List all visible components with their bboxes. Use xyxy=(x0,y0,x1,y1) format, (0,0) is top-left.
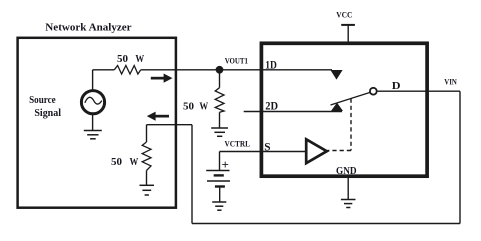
ground below R3 xyxy=(140,185,155,195)
svg-text:Source: Source xyxy=(29,94,56,106)
wire D output to VIN xyxy=(377,90,460,92)
svg-text:VOUT1: VOUT1 xyxy=(225,55,248,65)
wire S pin line xyxy=(220,151,307,153)
svg-text:Network Analyzer: Network Analyzer xyxy=(45,22,132,33)
wire GND pin to ground xyxy=(347,177,349,200)
dashed control line vertical xyxy=(350,99,352,151)
power rail VCC symbol xyxy=(341,25,355,44)
wire bottom return xyxy=(192,223,460,225)
svg-text:S: S xyxy=(264,141,270,153)
arrow forward direction xyxy=(151,74,173,83)
svg-text:VIN: VIN xyxy=(444,77,457,87)
source V1 AC source circle xyxy=(81,91,104,114)
wire source to R1 xyxy=(93,69,115,71)
svg-text:D: D xyxy=(392,81,401,92)
wire R3 top lead xyxy=(146,125,148,142)
driver buffer U1 xyxy=(306,139,327,163)
box switch IC package xyxy=(261,43,427,176)
box Network Analyzer enclosure xyxy=(18,38,176,208)
wire source bottom lead xyxy=(92,114,94,131)
wire 2D pin line inside box xyxy=(263,111,342,113)
resistor R2 50W vertical xyxy=(215,88,224,113)
svg-text:Signal: Signal xyxy=(34,107,61,119)
wire reverse path horizontal xyxy=(147,124,193,126)
wire VOUT1 to 1D pin xyxy=(220,69,333,71)
arrow reverse direction xyxy=(147,112,169,121)
switch pole circle xyxy=(370,88,377,95)
ground below source xyxy=(84,131,102,139)
wire 2D stub xyxy=(244,111,263,113)
dashed control line horizontal xyxy=(328,150,352,152)
wire source top lead xyxy=(92,70,94,91)
wire VOUT1 down to R2 xyxy=(219,70,221,88)
label Source Signal xyxy=(29,94,61,119)
svg-text:VCC: VCC xyxy=(336,10,352,20)
resistor R1 50W horizontal xyxy=(114,66,141,75)
svg-text:2D: 2D xyxy=(265,101,278,113)
wire battery top lead xyxy=(219,152,221,171)
ground below R2 xyxy=(211,128,228,136)
wire R3 to ground xyxy=(146,171,148,186)
wire R1 to node VOUT1 xyxy=(141,69,220,71)
switch blade xyxy=(331,93,370,106)
battery V2 VCTRL source xyxy=(206,171,230,187)
svg-text:1D: 1D xyxy=(265,60,277,72)
svg-text:GND: GND xyxy=(336,165,357,177)
ground below battery xyxy=(212,202,226,210)
wire battery bottom lead xyxy=(219,187,221,203)
node VOUT1 junction dot xyxy=(216,66,224,74)
resistor R3 50W vertical xyxy=(142,142,151,171)
switch contact 1D triangle xyxy=(330,70,342,80)
svg-text:VCTRL: VCTRL xyxy=(225,138,251,148)
wire right return up to VIN xyxy=(459,91,461,223)
wire R2 to ground xyxy=(219,112,221,128)
switch contact 2D triangle xyxy=(331,103,343,111)
ground below GND pin xyxy=(341,200,356,208)
wire reverse path down xyxy=(191,125,193,224)
